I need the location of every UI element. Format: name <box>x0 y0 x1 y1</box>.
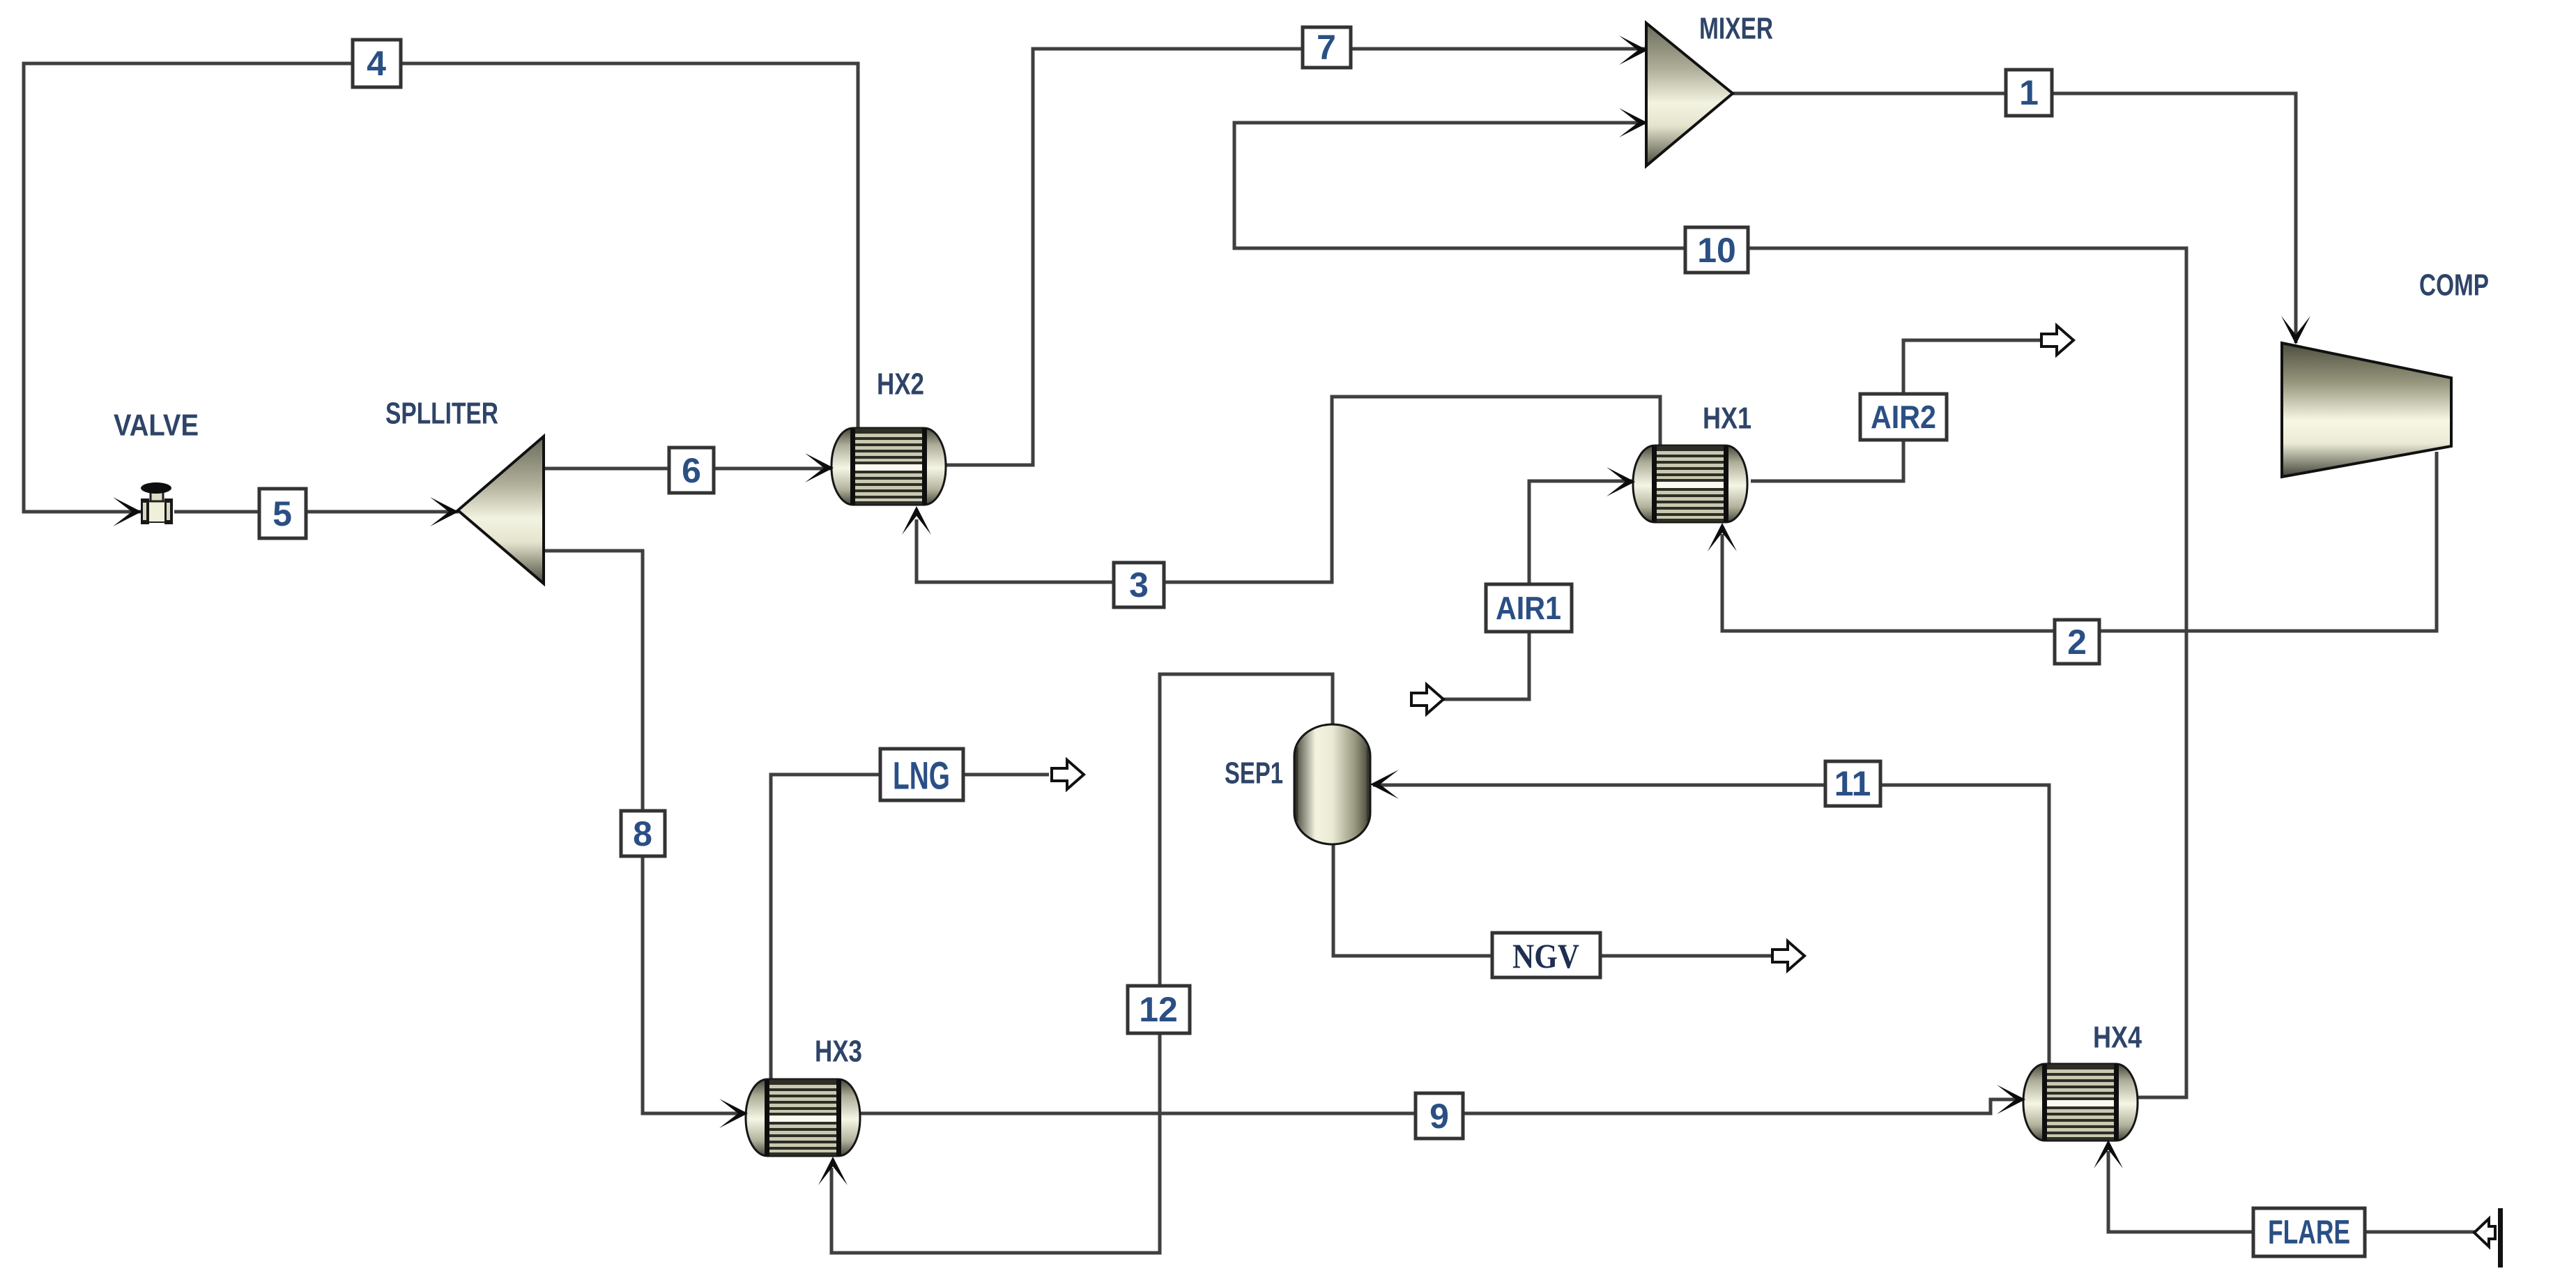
svg-text:3: 3 <box>1129 565 1149 604</box>
svg-text:SPLLITER: SPLLITER <box>385 397 498 431</box>
svg-text:HX3: HX3 <box>815 1035 862 1069</box>
svg-text:MIXER: MIXER <box>1699 12 1773 46</box>
arrow into comp <box>2281 316 2310 344</box>
node box LNG <box>880 749 963 800</box>
wire stream 8 splitter to HX3 <box>544 551 747 1113</box>
wire stream 2 COMP to HX1 <box>1722 452 2437 631</box>
node box stream 9 <box>1416 1093 1463 1138</box>
node box stream 5 <box>259 489 306 538</box>
wire stream 9 HX3 to HX4 <box>859 1099 2024 1113</box>
arrow into HX4 left <box>1997 1085 2025 1114</box>
FLARE end bar <box>2498 1208 2503 1267</box>
wire stream 11 HX4 to SEP1 <box>1373 785 2049 1064</box>
svg-text:11: 11 <box>1834 764 1871 803</box>
svg-text:SEP1: SEP1 <box>1225 756 1283 791</box>
open arrow AIR1 source <box>1411 685 1443 714</box>
arrow into valve <box>113 497 141 526</box>
arrow into HX1 left <box>1607 467 1635 496</box>
node box stream 11 <box>1825 761 1880 806</box>
wire stream 5 valve to splitter <box>174 510 459 514</box>
wire stream 6 splitter to HX2 <box>544 467 833 471</box>
node box stream 1 <box>2006 70 2052 116</box>
wire NGV SEP1 bottom out <box>1333 844 1774 956</box>
svg-text:2: 2 <box>2067 623 2087 662</box>
svg-text:HX1: HX1 <box>1703 402 1751 436</box>
wire stream 4 top <box>24 63 858 512</box>
node box NGV <box>1492 933 1600 977</box>
open arrow AIR2 out <box>2041 326 2073 355</box>
arrow into HX2 left <box>805 453 834 482</box>
svg-text:NGV: NGV <box>1512 936 1579 975</box>
wire AIR2 HX1 out <box>1751 340 2043 481</box>
mixer MIXER <box>1646 23 1733 166</box>
svg-text:6: 6 <box>682 451 701 490</box>
svg-text:8: 8 <box>633 814 652 853</box>
node box stream 3 <box>1114 563 1164 607</box>
svg-text:5: 5 <box>273 494 292 533</box>
separator SEP1 <box>1294 724 1370 844</box>
svg-text:1: 1 <box>2019 73 2039 112</box>
arrow into HX4 bottom <box>2094 1140 2123 1168</box>
arrow into HX2 bottom <box>902 506 931 535</box>
node box stream 12 <box>1128 986 1190 1033</box>
wire FLARE HX4 bottom <box>2108 1151 2475 1232</box>
heat exchanger HX2 <box>831 428 946 505</box>
node box stream 7 <box>1303 27 1351 68</box>
svg-text:AIR1: AIR1 <box>1496 590 1561 626</box>
node box stream 6 <box>669 448 714 493</box>
svg-text:HX4: HX4 <box>2093 1021 2142 1055</box>
open arrow FLARE end <box>2474 1219 2495 1247</box>
svg-text:COMP: COMP <box>2419 268 2489 303</box>
svg-text:FLARE: FLARE <box>2268 1214 2350 1251</box>
wire stream 12 SEP1 to HX3 <box>831 674 1333 1253</box>
svg-text:4: 4 <box>367 44 386 83</box>
svg-text:HX2: HX2 <box>877 367 924 402</box>
node box AIR2 <box>1860 394 1947 440</box>
arrow into splitter <box>430 497 459 526</box>
open arrow LNG out <box>1052 760 1084 789</box>
node box AIR1 <box>1486 584 1572 632</box>
svg-text:12: 12 <box>1139 990 1178 1029</box>
svg-text:VALVE: VALVE <box>114 409 199 443</box>
arrow into mixer 1 <box>1619 36 1648 65</box>
svg-text:10: 10 <box>1697 231 1736 270</box>
arrow into HX3 left <box>719 1099 748 1128</box>
wire AIR1 feed to HX1 <box>1443 481 1634 699</box>
svg-text:LNG: LNG <box>893 754 950 798</box>
wire stream 10 HX4 to MIXER <box>1234 123 2186 1097</box>
wire LNG HX3 top out <box>771 775 1049 1079</box>
heat exchanger HX4 <box>2023 1064 2138 1141</box>
node box stream 2 <box>2055 620 2099 664</box>
node box stream 8 <box>621 811 665 856</box>
arrow into mixer 2 <box>1619 108 1648 137</box>
svg-text:AIR2: AIR2 <box>1871 399 1936 435</box>
svg-text:7: 7 <box>1317 28 1336 67</box>
valve VALVE <box>141 482 173 524</box>
node box stream 10 <box>1685 227 1748 273</box>
wire stream 1 MIXER to COMP <box>1733 93 2296 343</box>
arrow into SEP1 right <box>1370 770 1399 799</box>
open arrow NGV out <box>1772 941 1804 970</box>
arrow into HX3 bottom <box>818 1157 848 1185</box>
wire stream 7 HX2 to MIXER <box>946 49 1646 465</box>
heat exchanger HX1 <box>1633 445 1747 522</box>
compressor COMP <box>2282 343 2451 477</box>
node box stream 4 <box>353 40 401 87</box>
svg-text:9: 9 <box>1429 1097 1449 1136</box>
heat exchanger HX3 <box>746 1079 860 1156</box>
node box FLARE <box>2253 1208 2365 1256</box>
arrow into HX1 bottom <box>1708 523 1737 551</box>
splitter SPLLITER <box>458 436 544 584</box>
wire stream 3 HX1 to HX2 <box>917 397 1660 582</box>
